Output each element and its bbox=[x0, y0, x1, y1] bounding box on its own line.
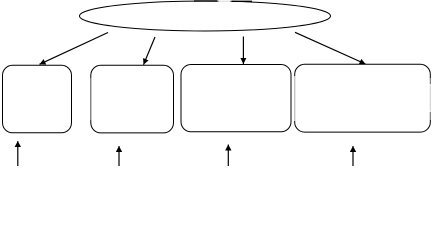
top oval (source) bbox=[80, 1, 331, 31]
box 1 bbox=[3, 65, 72, 133]
bottom input arrow 2 bbox=[118, 146, 120, 166]
box 4 bbox=[295, 64, 431, 132]
arrow oval to box 4 bbox=[295, 32, 366, 64]
arrow oval to box 3 bbox=[242, 37, 244, 65]
box 2 lighter left edge (scan fade) bbox=[90, 78, 92, 120]
arrow oval to box 1 bbox=[40, 33, 109, 65]
bottom input arrow 1 bbox=[17, 141, 19, 166]
bottom input arrow 4 bbox=[352, 146, 354, 166]
oval top dark dash segments (scan emphasis) bbox=[194, 0, 217, 2]
box 4 faint left edge (scan fade) bbox=[294, 76, 296, 121]
box 4 faint right edge (scan fade) bbox=[429, 84, 431, 112]
box 3 bbox=[181, 65, 291, 132]
box 2 bbox=[91, 65, 174, 133]
bottom input arrow 3 bbox=[227, 145, 229, 167]
arrow oval to box 2 bbox=[144, 37, 156, 65]
